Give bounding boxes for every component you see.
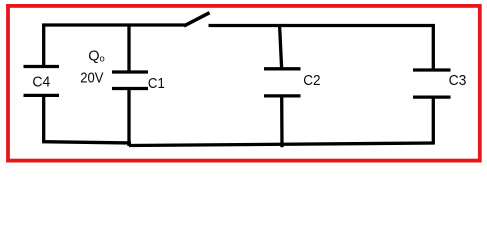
wire left branch upper (node to C4): [42, 24, 45, 66]
switch S1 (open blade): [186, 14, 209, 26]
wire bottom-left segment: [42, 142, 131, 143]
capacitor C3 top plate: [413, 68, 451, 71]
capacitor C4 bottom plate: [24, 94, 60, 97]
wire C1 branch lower: [127, 90, 130, 147]
wire C1 branch upper: [127, 24, 130, 71]
label C3: [449, 73, 467, 89]
wire right branch lower (C3 to bottom node): [432, 98, 435, 144]
svg-text:C2: C2: [303, 73, 320, 89]
svg-text:20V: 20V: [80, 70, 103, 86]
wire right branch upper (node to C3): [432, 24, 435, 69]
capacitor C2 bottom plate: [264, 94, 301, 97]
label C1: [148, 76, 165, 92]
capacitor C2 top plate: [264, 67, 301, 70]
svg-text:C3: C3: [449, 73, 467, 89]
wire left branch lower (C4 to bottom node): [42, 97, 45, 143]
capacitor C3 bottom plate: [413, 95, 451, 98]
wire C2 branch lower: [280, 97, 284, 147]
wire top-left segment: [42, 23, 186, 26]
svg-text:C1: C1: [148, 76, 165, 92]
wire top-right segment: [209, 24, 435, 27]
capacitor C1 bottom plate: [112, 87, 148, 90]
wire C2 branch upper: [280, 24, 282, 68]
svg-text:C4: C4: [32, 74, 50, 90]
capacitor C4 top plate: [24, 65, 60, 68]
wire bottom-right segment: [129, 143, 435, 146]
capacitor C1 top plate: [112, 70, 148, 73]
label Q0 (charge): [88, 49, 105, 65]
label C2: [303, 73, 320, 89]
label C4: [32, 74, 50, 90]
label 20V: [80, 70, 103, 86]
